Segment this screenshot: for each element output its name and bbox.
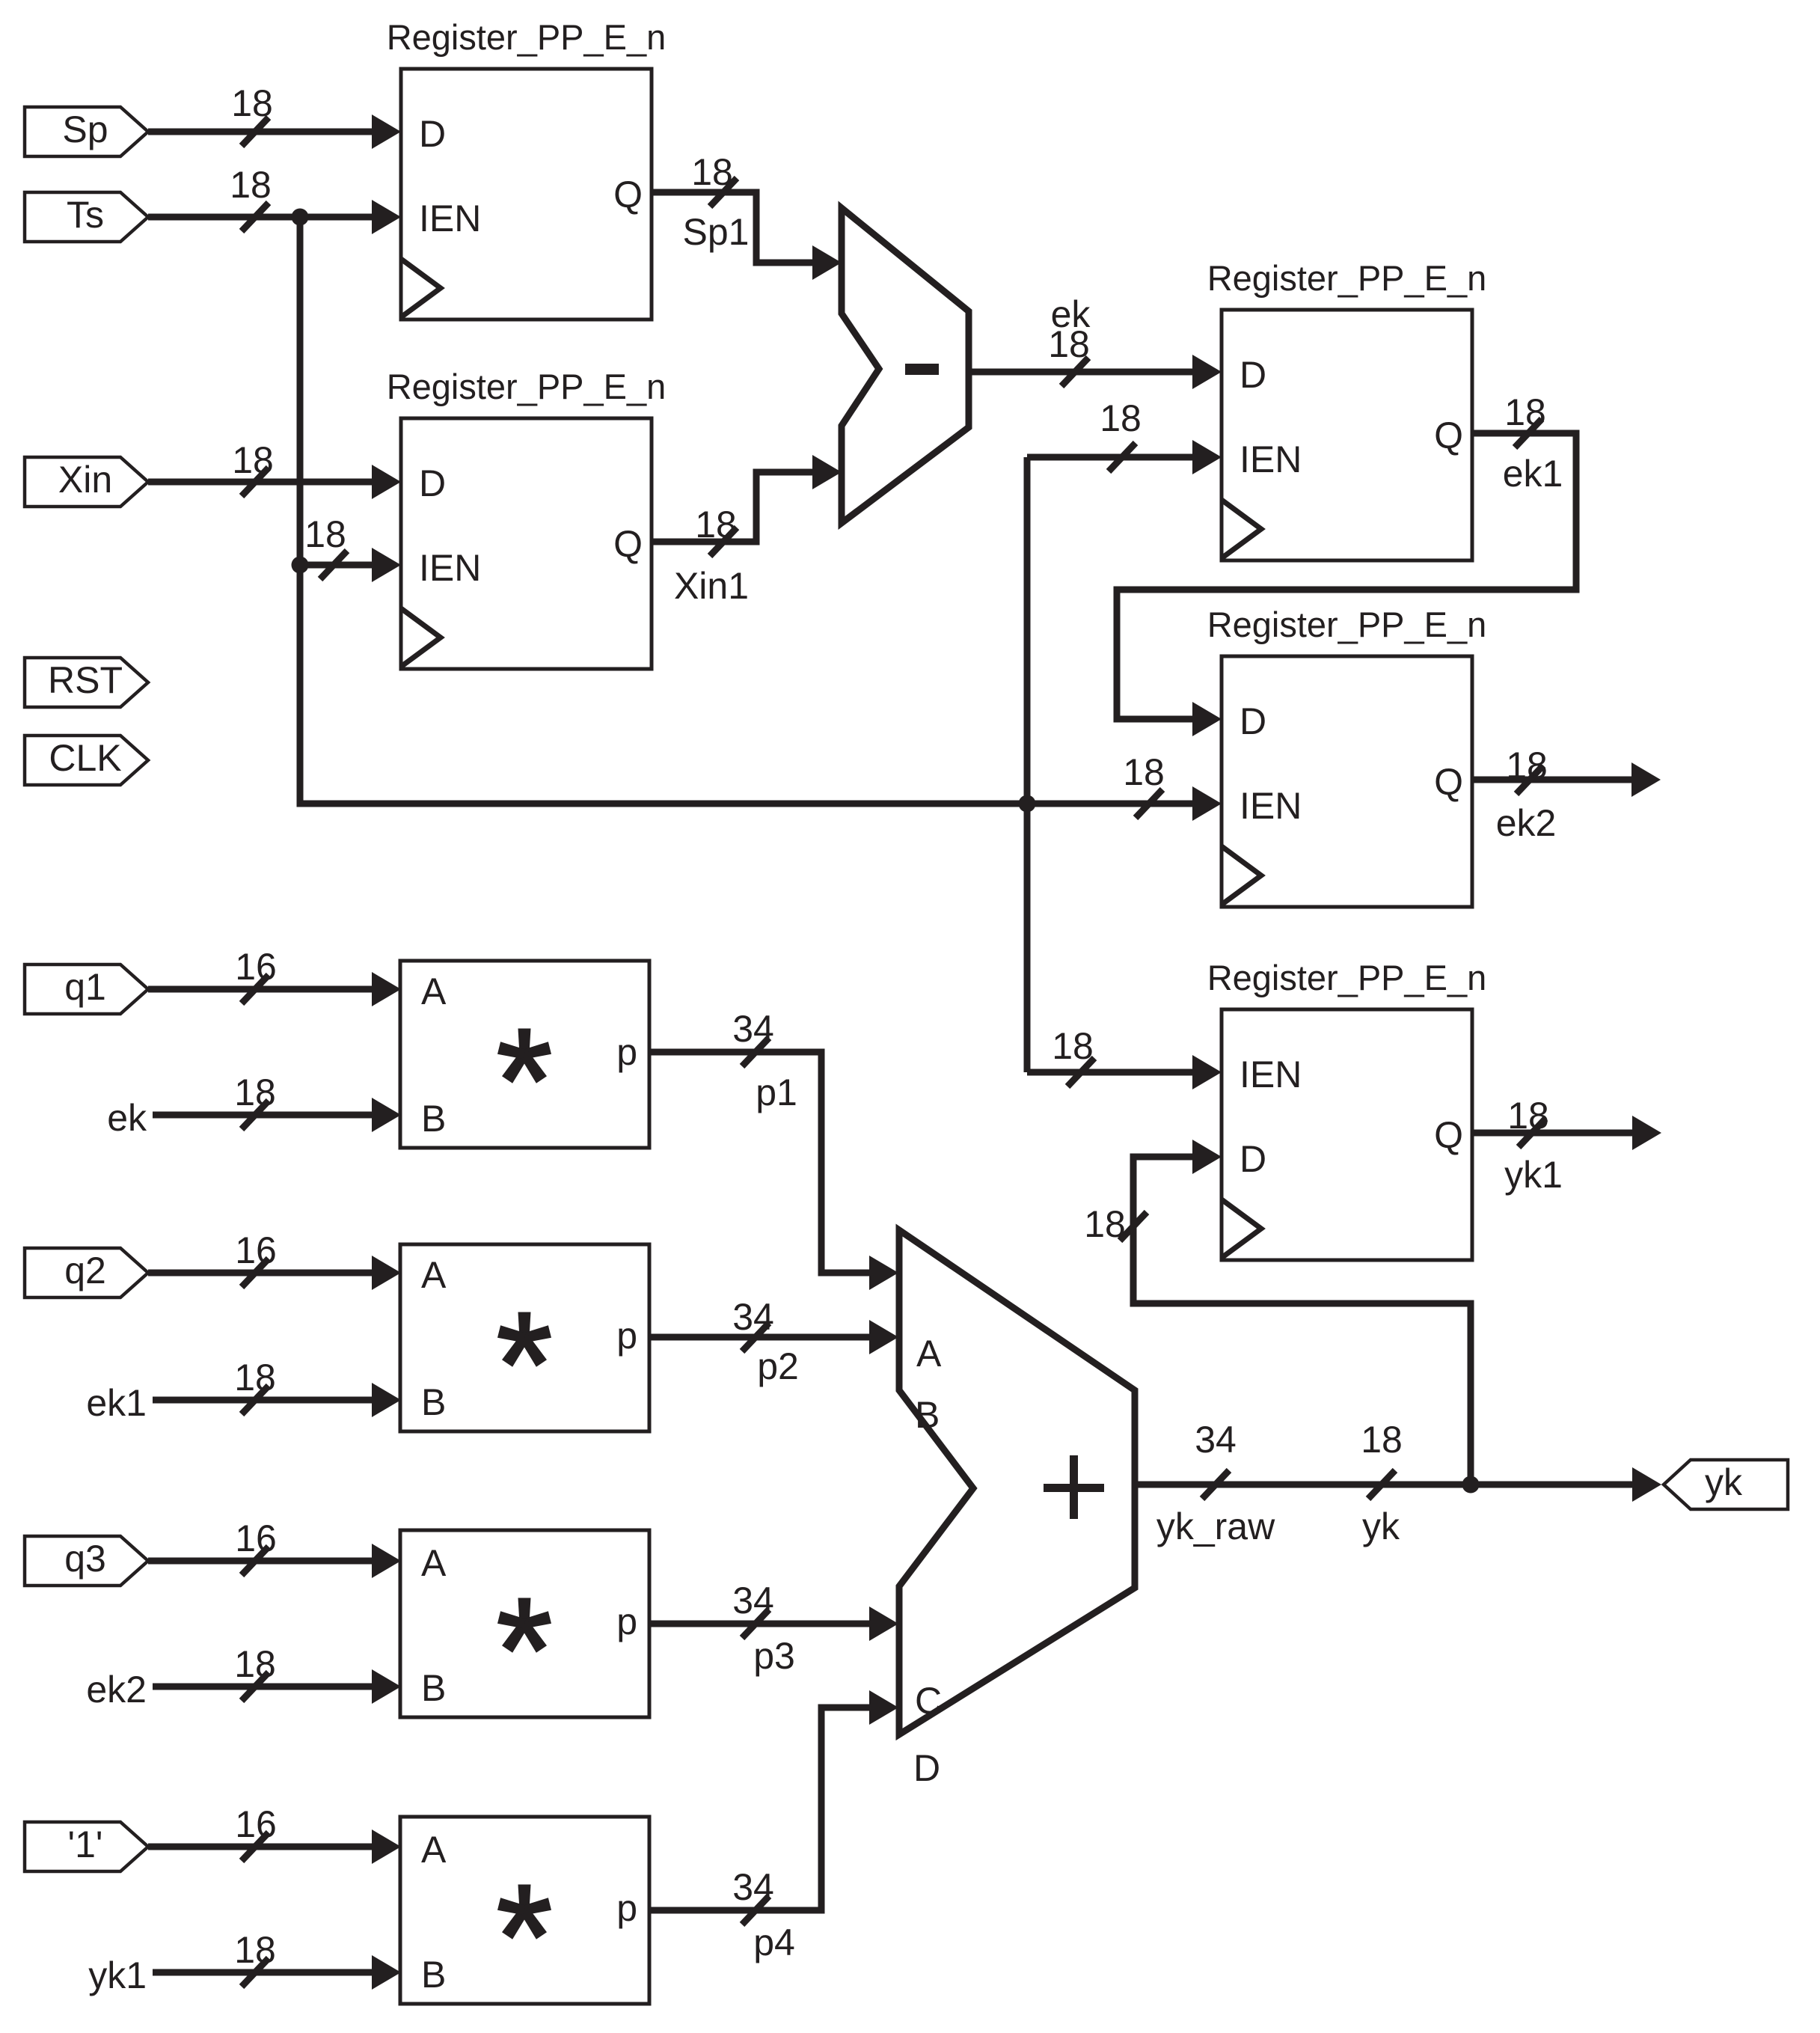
wire ek1 -> mult2.B (153, 1397, 372, 1404)
input port '1' (25, 1822, 148, 1871)
svg-text:RST: RST (48, 659, 123, 701)
svg-text:B: B (421, 1667, 446, 1709)
svg-text:B: B (421, 1954, 446, 1996)
bus slash ek2B bus (242, 1672, 269, 1701)
wire Ts branch vertical (1024, 457, 1031, 1072)
input port CLK (25, 736, 148, 785)
svg-text:18: 18 (1507, 1095, 1549, 1137)
svg-text:16: 16 (235, 946, 277, 988)
svg-text:'1': '1' (68, 1823, 103, 1865)
svg-text:Register_PP_E_n: Register_PP_E_n (1207, 258, 1487, 298)
svg-text:Xin: Xin (58, 459, 112, 501)
bus slash q2 bus (242, 1259, 269, 1287)
input port RST (25, 658, 148, 707)
svg-text:Register_PP_E_n: Register_PP_E_n (387, 367, 667, 406)
svg-text:D: D (419, 462, 446, 504)
wire net yk1: U5.Q output (1472, 1130, 1632, 1137)
svg-text:ek2: ek2 (86, 1669, 147, 1711)
svg-text:CLK: CLK (49, 737, 121, 779)
bus slash ek1 bus (1515, 419, 1542, 447)
bus slash p4 bus (742, 1896, 769, 1925)
arrowhead ek2 out (1631, 762, 1661, 797)
bus slash p1 bus (742, 1038, 769, 1066)
wire net ek: subtractor -> U3.D (969, 369, 1192, 376)
arrowhead Sp D (372, 114, 401, 149)
svg-text:18: 18 (1100, 397, 1142, 439)
wire net ek2: U4.Q output (1472, 777, 1631, 783)
svg-text:Register_PP_E_n: Register_PP_E_n (1207, 605, 1487, 644)
input port Xin (25, 457, 148, 507)
arrowhead ek D3 (1192, 355, 1222, 389)
arrowhead ek B1 (372, 1098, 401, 1132)
svg-text:D: D (1240, 700, 1266, 742)
svg-text:IEN: IEN (1240, 438, 1302, 480)
svg-text:C: C (915, 1680, 942, 1722)
wire net p3: mult3.p -> adder (649, 1621, 869, 1627)
arrowhead Ts IEN4 (1192, 786, 1222, 821)
svg-text:B: B (915, 1394, 940, 1436)
svg-text:18: 18 (1504, 391, 1546, 433)
adder U_add (899, 1230, 1135, 1789)
svg-text:yk1: yk1 (88, 1954, 147, 1996)
svg-text:p: p (616, 1601, 637, 1642)
input port Ts (25, 192, 148, 242)
register U1 (Sp pipeline) (Register_PP_E_n) (387, 17, 667, 320)
svg-text:IEN: IEN (1240, 1054, 1302, 1095)
bus slash IEN2 bus (320, 551, 347, 579)
svg-text:34: 34 (732, 1008, 774, 1050)
wire q2 -> mult2.A (148, 1270, 372, 1277)
svg-text:18: 18 (1084, 1203, 1126, 1245)
bus slash Sp1 bus (710, 178, 737, 207)
svg-text:18: 18 (691, 151, 733, 193)
svg-text:18: 18 (695, 504, 737, 545)
bus slash ekB bus (242, 1101, 269, 1129)
wire net Xin1: U2.Q -> subtractor (652, 472, 812, 542)
wire Xin -> U2.D (148, 479, 372, 486)
svg-text:p: p (616, 1887, 637, 1929)
bus slash p2 bus (742, 1323, 769, 1351)
bus slash q3 bus (242, 1547, 269, 1575)
bus slash Xin bus (242, 468, 269, 496)
wire Ts -> U2.IEN (300, 562, 372, 569)
bus slash ek1B bus (242, 1386, 269, 1414)
svg-text:18: 18 (1048, 323, 1090, 365)
svg-text:18: 18 (234, 1357, 276, 1398)
svg-text:16: 16 (235, 1517, 277, 1559)
svg-text:p: p (616, 1031, 637, 1073)
arrowhead q3 A (372, 1544, 401, 1578)
svg-text:IEN: IEN (1240, 785, 1302, 827)
svg-text:B: B (421, 1381, 446, 1423)
svg-text:q2: q2 (64, 1250, 106, 1291)
svg-text:18: 18 (304, 513, 346, 555)
bus slash q1 bus (242, 975, 269, 1003)
svg-text:Register_PP_E_n: Register_PP_E_n (387, 17, 667, 57)
svg-text:Q: Q (613, 174, 643, 215)
bus slash p3 bus (742, 1609, 769, 1638)
arrowhead Ts IEN5 (1192, 1055, 1222, 1089)
wire '1' -> mult4.A (148, 1844, 372, 1850)
arrowhead '1' A (372, 1829, 401, 1864)
arrowhead p4 add (869, 1690, 898, 1725)
arrowhead q2 A (372, 1256, 401, 1290)
svg-text:p: p (616, 1315, 637, 1357)
bus slash ek2 bus (1516, 765, 1543, 794)
svg-text:18: 18 (234, 1929, 276, 1971)
multiplier U_mult4 (400, 1817, 649, 2004)
svg-text:q1: q1 (64, 966, 106, 1008)
svg-text:ek2: ek2 (1496, 802, 1557, 844)
svg-text:Sp1: Sp1 (683, 211, 750, 253)
multiplier U_mult2 (400, 1244, 649, 1431)
bus slash yk_raw bus (1202, 1470, 1229, 1499)
svg-text:yk: yk (1705, 1461, 1743, 1503)
svg-text:34: 34 (732, 1296, 774, 1338)
arrowhead Sp1 sub (812, 245, 842, 280)
arrowhead Xin1 sub (812, 455, 842, 489)
svg-text:D: D (913, 1747, 940, 1789)
wire net yk -> U5.D feedback (1133, 1157, 1471, 1485)
wire ek -> mult1.B (153, 1112, 372, 1119)
wire Ts -> U5.IEN (1027, 1069, 1192, 1076)
arrowhead yk1 out (1632, 1116, 1661, 1150)
arrowhead Ts IEN3 (1192, 440, 1222, 474)
svg-text:yk: yk (1362, 1505, 1400, 1547)
wire Ts -> U3.IEN (1027, 454, 1192, 461)
svg-text:18: 18 (234, 1071, 276, 1113)
bus slash yk bus (1368, 1470, 1395, 1499)
svg-text:A: A (421, 1829, 447, 1871)
svg-text:34: 34 (732, 1580, 774, 1621)
arrowhead yk D5 (1192, 1140, 1222, 1174)
wire ek2 -> mult3.B (153, 1684, 372, 1690)
svg-text:ek1: ek1 (86, 1382, 147, 1424)
junction yk tee (1462, 1476, 1480, 1494)
bus slash yk1B bus (242, 1958, 269, 1987)
arrowhead p3 add (869, 1606, 898, 1641)
junction Ts tee 2 (292, 557, 309, 574)
svg-text:18: 18 (231, 82, 273, 124)
input port q1 (25, 964, 148, 1014)
wire net p4: mult4.p -> adder (649, 1708, 869, 1910)
register U5 (yk pipeline) (Register_PP_E_n) (1207, 958, 1487, 1260)
wire q3 -> mult3.A (148, 1558, 372, 1565)
subtractor U_sub (842, 208, 969, 523)
svg-text:yk_raw: yk_raw (1156, 1505, 1275, 1547)
bus slash Xin1 bus (710, 528, 737, 556)
bus slash ykD5 bus (1120, 1212, 1147, 1241)
wire Sp -> U1.D (148, 129, 372, 135)
bus slash ek bus (1061, 358, 1088, 386)
arrowhead Ts IEN1 (372, 200, 401, 234)
wire Ts trunk vertical+to U4.IEN (300, 217, 1192, 804)
svg-text:18: 18 (234, 1643, 276, 1685)
svg-text:18: 18 (1123, 751, 1165, 793)
svg-text:A: A (916, 1333, 942, 1375)
svg-text:D: D (1240, 1138, 1266, 1180)
svg-text:D: D (1240, 354, 1266, 396)
input port q3 (25, 1536, 148, 1586)
svg-text:18: 18 (230, 164, 272, 206)
svg-text:q3: q3 (64, 1538, 106, 1580)
svg-text:Q: Q (613, 523, 643, 565)
svg-text:p4: p4 (753, 1922, 795, 1963)
svg-text:16: 16 (235, 1229, 277, 1271)
svg-text:B: B (421, 1098, 446, 1140)
svg-text:yk1: yk1 (1504, 1154, 1563, 1196)
svg-text:p2: p2 (757, 1345, 799, 1387)
svg-text:34: 34 (732, 1866, 774, 1908)
arrowhead Xin D2 (372, 465, 401, 499)
wire net Sp1: U1.Q -> subtractor (652, 192, 812, 263)
svg-text:ek: ek (107, 1097, 147, 1139)
junction Ts tee (292, 209, 309, 226)
svg-text:IEN: IEN (419, 547, 481, 589)
svg-text:Q: Q (1434, 415, 1463, 456)
input port q2 (25, 1248, 148, 1297)
svg-text:A: A (421, 1254, 447, 1296)
wire net yk_raw/yk: adder -> yk port (1135, 1482, 1632, 1488)
svg-text:18: 18 (232, 439, 274, 481)
wire yk1 -> mult4.B (153, 1969, 372, 1976)
arrowhead yk out (1632, 1467, 1661, 1502)
wire net p2: mult2.p -> adder (649, 1334, 869, 1341)
arrowhead ek2 B3 (372, 1669, 401, 1704)
svg-text:IEN: IEN (419, 198, 481, 239)
svg-text:Q: Q (1434, 761, 1463, 803)
svg-text:18: 18 (1361, 1419, 1403, 1461)
svg-text:p3: p3 (753, 1635, 795, 1677)
svg-text:Q: Q (1434, 1114, 1463, 1156)
svg-text:p1: p1 (756, 1071, 797, 1113)
multiplier U_mult3 (400, 1530, 649, 1717)
wire Ts -> U1.IEN (148, 214, 372, 221)
arrowhead q1 A (372, 972, 401, 1006)
arrowhead yk1 B4 (372, 1955, 401, 1990)
junction Ts trunk tee (1019, 795, 1036, 813)
register U2 (Xin pipeline) (Register_PP_E_n) (387, 367, 667, 669)
svg-text:Xin1: Xin1 (674, 565, 749, 607)
svg-text:A: A (421, 1542, 447, 1584)
svg-text:D: D (419, 113, 446, 155)
bus slash IEN4 bus (1136, 789, 1162, 818)
arrowhead ek1 D4 (1192, 702, 1222, 736)
bus slash Sp bus (242, 117, 269, 146)
svg-text:16: 16 (235, 1803, 277, 1845)
svg-text:18: 18 (1506, 745, 1548, 786)
multiplier U_mult1 (400, 961, 649, 1148)
bus slash yk1 bus (1519, 1119, 1545, 1147)
register U3 (ek pipeline) (Register_PP_E_n) (1207, 258, 1487, 560)
bus slash Ts bus (242, 203, 269, 231)
arrowhead Ts IEN2 (372, 548, 401, 582)
wire q1 -> mult1.A (148, 986, 372, 993)
svg-text:Ts: Ts (67, 194, 104, 236)
svg-text:34: 34 (1195, 1419, 1237, 1461)
wire net ek1: U3.Q -> U4.D (1117, 433, 1576, 719)
svg-text:Sp: Sp (62, 108, 108, 150)
svg-text:Register_PP_E_n: Register_PP_E_n (1207, 958, 1487, 997)
arrowhead p2 add (869, 1320, 898, 1354)
wire net p1: mult1.p -> adder (649, 1052, 869, 1273)
svg-text:ek1: ek1 (1503, 453, 1563, 495)
svg-text:A: A (421, 970, 447, 1012)
arrowhead p1 add (869, 1256, 898, 1290)
bus slash IEN3 bus (1109, 443, 1136, 471)
arrowhead ek1 B2 (372, 1383, 401, 1417)
input port Sp (25, 107, 148, 156)
bus slash IEN5 bus (1067, 1058, 1094, 1086)
svg-text:18: 18 (1052, 1025, 1094, 1067)
output port yk (1664, 1460, 1788, 1509)
bus slash '1' bus (242, 1832, 269, 1861)
register U4 (ek1 pipeline) (Register_PP_E_n) (1207, 605, 1487, 907)
